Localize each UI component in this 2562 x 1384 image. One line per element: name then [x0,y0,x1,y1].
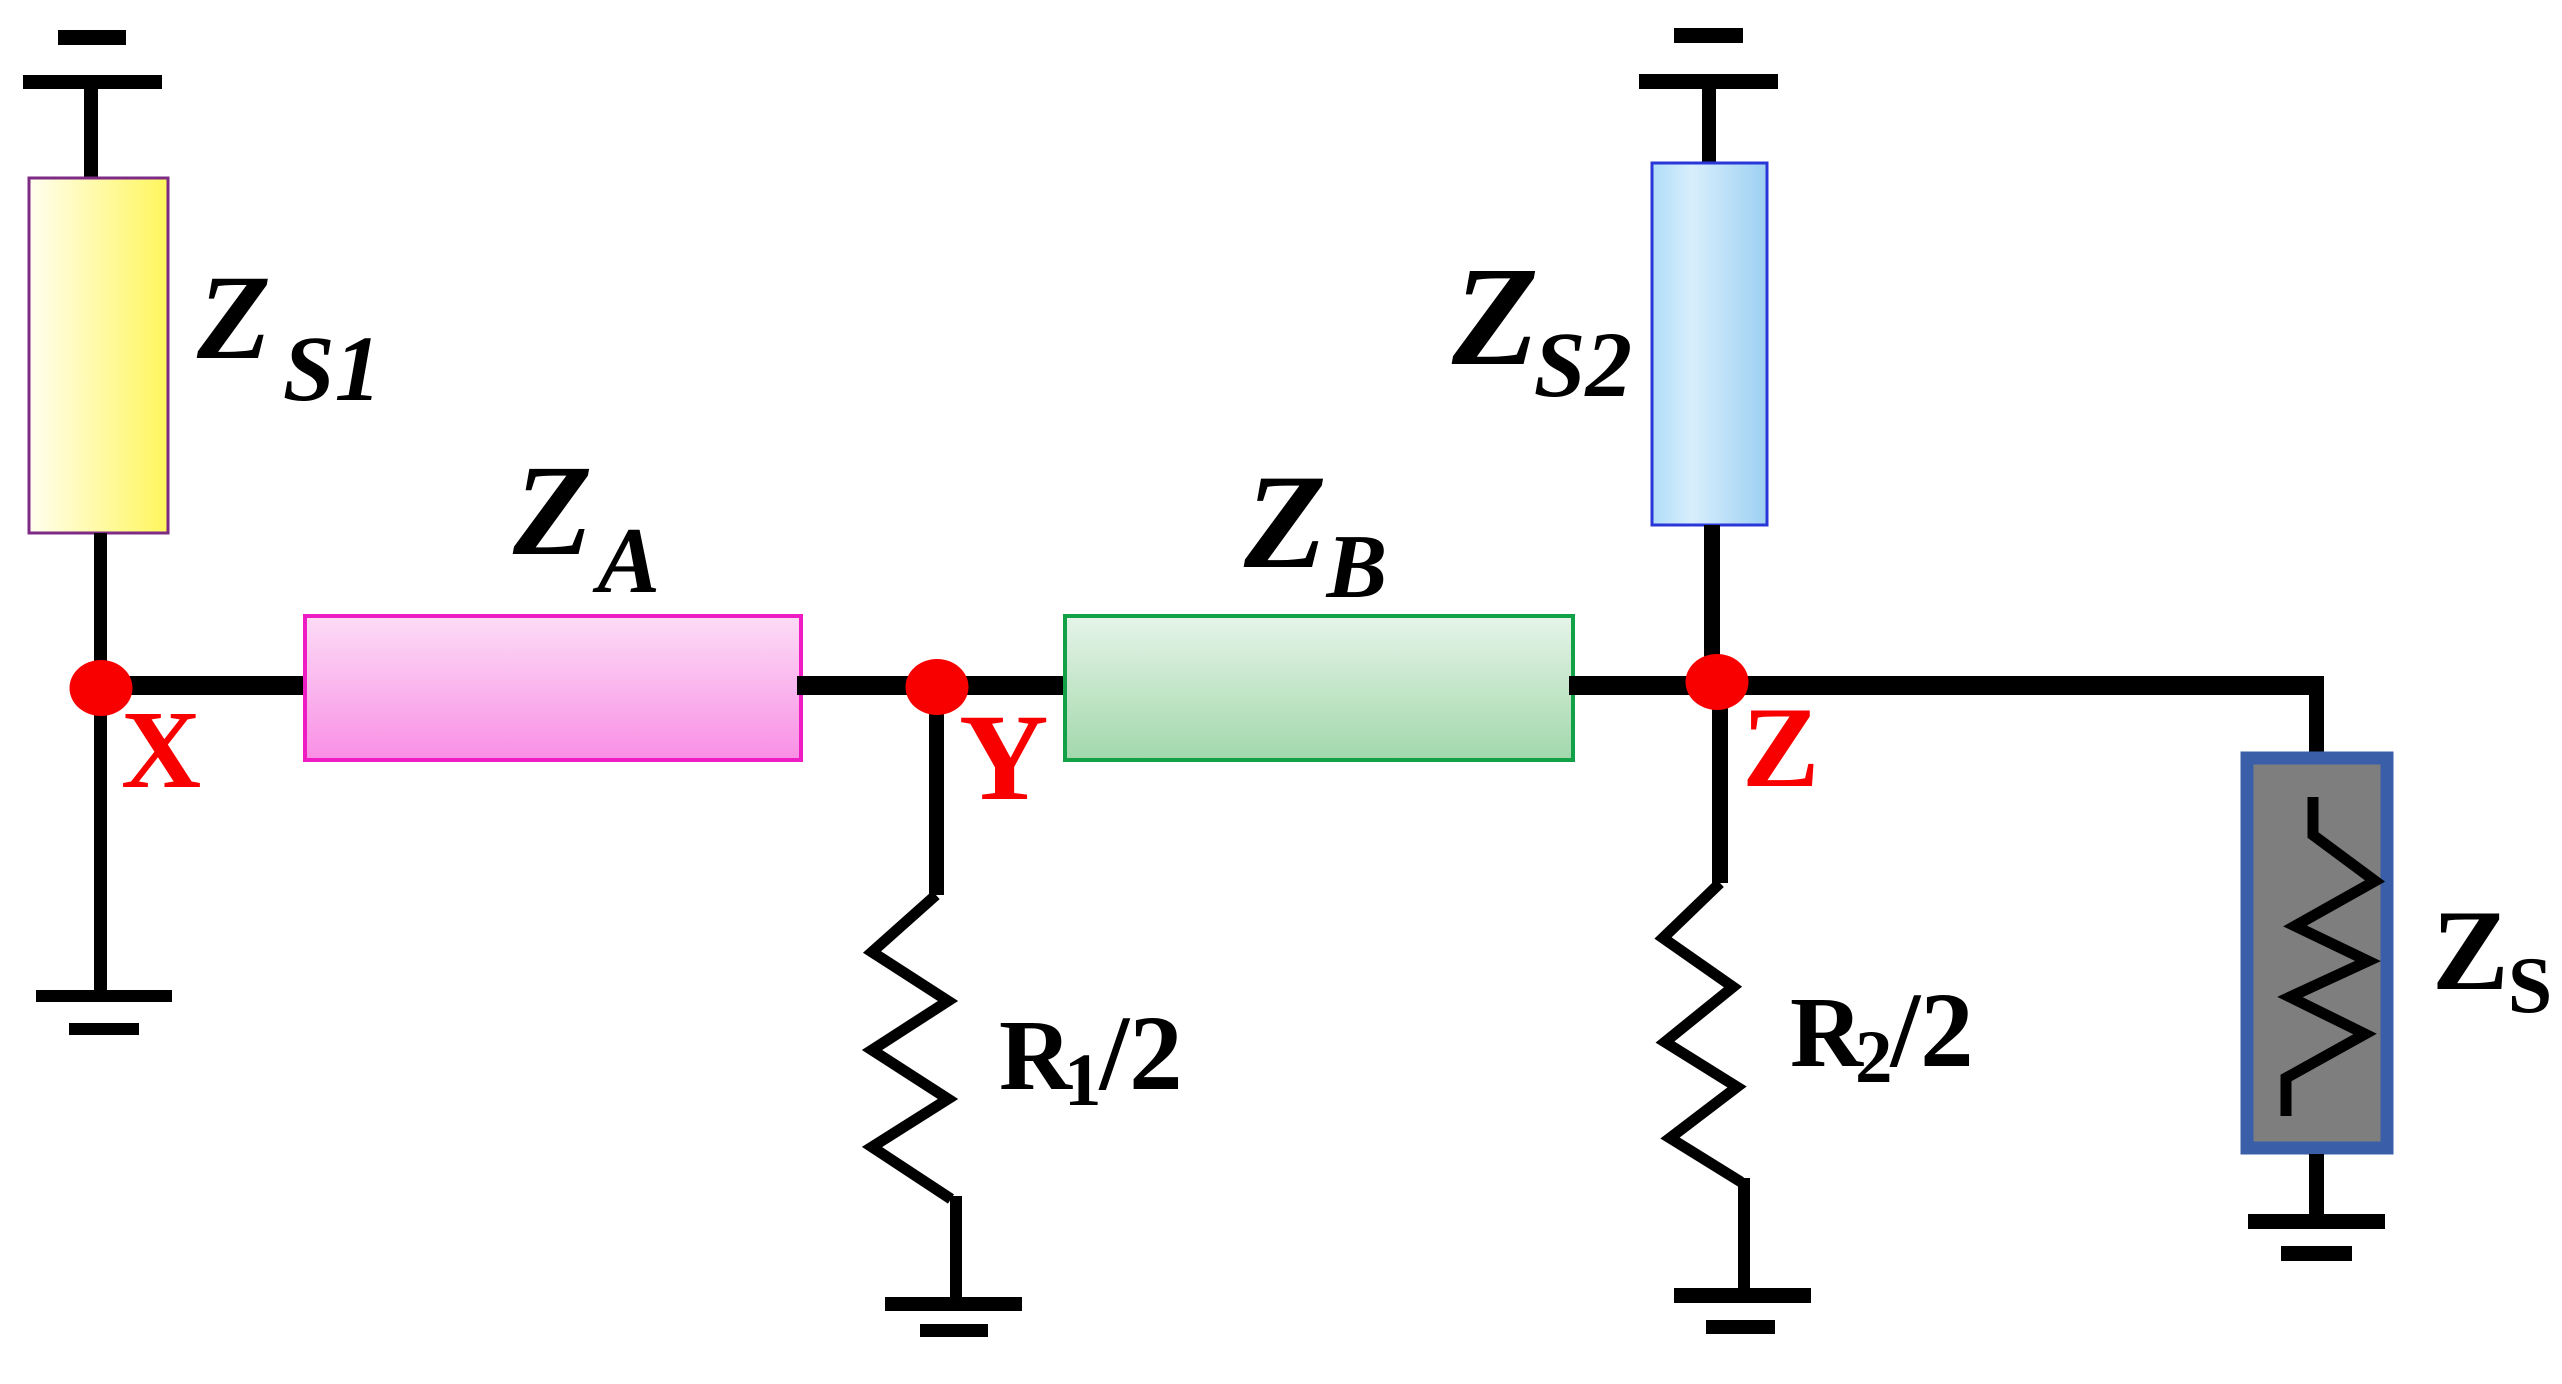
svg-text:ZS2: ZS2 [1451,237,1632,417]
svg-text:ZA: ZA [512,439,660,613]
wire [2309,1154,2324,1216]
wire [94,533,107,693]
svg-text:R2/2: R2/2 [1790,972,1974,1099]
wire [929,687,944,895]
svg-text:Y: Y [959,689,1049,826]
svg-text:ZB: ZB [1243,448,1387,617]
wire [101,676,309,695]
impedance ZS (gray box with resistor symbol) [2247,758,2387,1148]
resistor symbol inside ZS [2286,797,2375,1116]
ground (top-right, above ZS2) [1639,28,1778,89]
wire [797,676,941,695]
node X [70,660,133,716]
impedance ZS1 (yellow box) [29,178,168,533]
impedance ZB (green box) [1065,616,1573,760]
wire [950,1196,962,1297]
wire [84,89,98,181]
wire [2309,678,2324,756]
impedance ZA (pink box) [305,616,801,760]
ground (top-left, above ZS1) [23,30,162,89]
wire [1569,676,1717,695]
svg-text:ZS: ZS [2432,887,2552,1030]
svg-text:X: X [121,689,201,812]
node Z [1686,654,1749,710]
svg-text:Z: Z [1742,684,1819,812]
svg-text:ZS1: ZS1 [196,251,381,421]
wire [1712,682,1728,883]
wire [1704,525,1720,685]
resistor R1/2 [872,895,951,1199]
resistor R2/2 [1663,883,1741,1182]
ground (below R2/2) [1674,1288,1811,1334]
wire [1713,676,2324,695]
wire [933,676,1069,695]
wire [1702,89,1716,166]
wire [94,688,107,992]
svg-text:R1/2: R1/2 [999,995,1183,1122]
wire [1738,1178,1750,1290]
ground (bottom-left, below node X) [36,990,172,1035]
impedance ZS2 (blue box) [1652,163,1767,525]
ground (below ZS) [2248,1214,2385,1261]
ground (below R1/2) [885,1297,1022,1337]
node Y [906,659,969,715]
